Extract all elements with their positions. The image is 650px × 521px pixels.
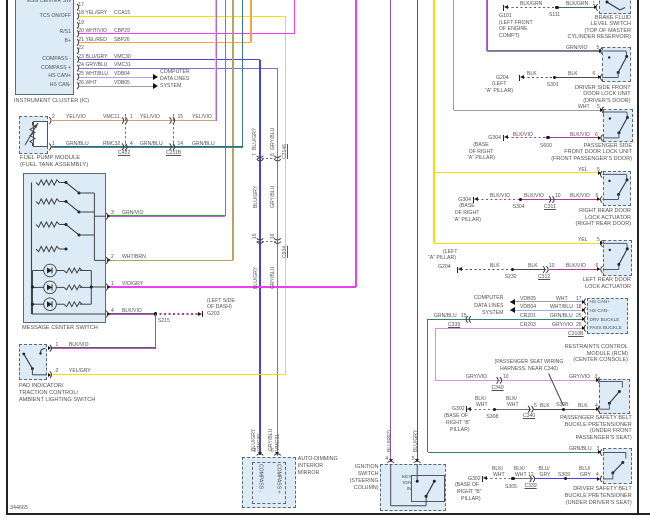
page border right — [637, 0, 639, 514]
message center pin 1 — [107, 285, 111, 289]
ignition switch art — [0, 0, 1, 1]
compass labels — [257, 464, 264, 492]
connector C340 blk — [0, 0, 1, 1]
fuel level sender box — [33, 121, 48, 147]
message center switch block — [23, 173, 106, 323]
IC pin 26 — [0, 0, 1, 1]
wire BLK to driver lock — [555, 77, 600, 78]
wire BLK lr — [513, 269, 546, 270]
page border left — [6, 0, 8, 514]
passenger side front door lock unit block — [603, 109, 633, 142]
instrument cluster block — [15, 0, 74, 95]
pointer line to S39B — [0, 0, 1, 1]
wire GRN/VIO to driver lock — [487, 50, 600, 52]
doc number — [10, 505, 28, 512]
fuel pump module block — [19, 116, 48, 154]
wire YEL/GRY down — [285, 17, 286, 375]
wire GRN/VIO riser right — [486, 0, 488, 51]
block pin arrowheads — [599, 49, 602, 53]
wire BLK pass buckle — [533, 409, 598, 410]
wire BLK/VIO down to pad switch — [155, 314, 157, 349]
ignition pin 4 — [0, 0, 1, 1]
ignition pin 5 — [0, 0, 1, 1]
ground G304 — [474, 197, 478, 201]
ground G204 — [520, 75, 524, 79]
driver pretensioner block — [603, 448, 632, 484]
connector C312 — [0, 0, 1, 1]
variable resistor — [24, 121, 25, 122]
splice S304 — [519, 198, 522, 201]
connector C2146 — [257, 158, 276, 159]
connector C934 — [257, 241, 276, 242]
splice S309 — [564, 477, 567, 480]
wire GRN/VIO riser — [225, 0, 227, 216]
brake fluid level switch block — [599, 0, 631, 14]
arrow computer data lines rcm — [510, 307, 515, 313]
connector C339 drv — [0, 0, 1, 1]
connector C340 — [0, 0, 1, 1]
wire BLU/RED riser to ignition — [390, 0, 391, 462]
wire YEL to left rear lock — [434, 243, 602, 244]
msg pin4 line — [0, 0, 1, 1]
wire BLK/GRN dashed — [507, 7, 557, 8]
wire WHT VDB05 rcm — [510, 301, 584, 302]
wire YEL/RED riser — [250, 0, 251, 42]
wire GRY/VIO down to C340 — [435, 328, 436, 380]
IC pin 21 — [0, 0, 1, 1]
wire WHT/BRN riser — [232, 0, 233, 260]
splice S305 — [511, 477, 514, 480]
wire YEL/GRY CCA15 — [79, 16, 286, 17]
wire GRN/BLU CR201 rcm — [428, 319, 584, 321]
fuel pump pin 1 — [0, 0, 1, 1]
connector C311 — [0, 0, 1, 1]
wire GRN/BLU down to driver buckle — [427, 319, 429, 452]
restraints control module block — [587, 298, 628, 334]
wire GRY/BLU VMC31 — [79, 68, 278, 69]
connector C339 into rcm row — [0, 0, 1, 1]
wire GRN/BLU riser — [242, 0, 244, 147]
wire BLK/WHT dashed G302 drv — [486, 478, 513, 479]
wire BLK/WHT dashed G302 — [470, 409, 494, 410]
ground G203 — [198, 312, 202, 316]
wire YEL to right rear lock — [434, 172, 602, 173]
key-in switch box — [411, 475, 445, 502]
wire WHT/BRN msg — [110, 260, 233, 261]
msg switch resistors and switches — [0, 0, 1, 1]
splice S301 — [553, 76, 556, 79]
wire GRN/BLU RMC32 — [51, 146, 243, 148]
wire WHT VDB05 — [79, 86, 153, 87]
IC pin 19 — [0, 0, 1, 1]
wire VIO/GRY riser — [355, 0, 356, 287]
splice S111 — [555, 6, 558, 9]
mirror pin arrows — [258, 452, 262, 455]
IC pin 25 — [0, 0, 1, 1]
wire BLK/WHT pass — [494, 409, 531, 410]
msg left bus — [0, 0, 1, 1]
passenger pretensioner block — [599, 379, 630, 415]
wire BLK/VIO to G203 — [155, 313, 200, 314]
ground G101 — [504, 5, 508, 9]
IC pin 24 — [0, 0, 1, 1]
IC pin 18 — [0, 0, 1, 1]
wire GRY/BLU VMC31 down — [277, 69, 278, 456]
connector C211B — [173, 114, 174, 152]
wire YEL/VIO VMC11 — [51, 120, 216, 122]
ground G302 — [467, 407, 471, 411]
pad switch pin 2 — [0, 0, 1, 1]
wire BLK/VIO dashed G304 — [507, 137, 548, 138]
pad switch pin 1 — [0, 0, 1, 1]
splice S308 — [493, 408, 496, 411]
ground G302 drv — [483, 476, 487, 480]
arrow to computer data lines — [153, 74, 158, 80]
mirror pin 6 — [0, 0, 1, 1]
wire BLK/VIO to lr lock — [549, 269, 600, 270]
message center pin 2 — [107, 258, 111, 262]
ground G304 — [504, 135, 508, 139]
wire WHT/BLU VDB04 — [79, 77, 153, 78]
fuel pump pin 2 — [0, 0, 1, 1]
arrow computer data lines rcm — [510, 299, 515, 305]
wire WHT/VIO CBP29 — [79, 33, 295, 34]
message center pin 3 — [107, 214, 111, 218]
IC pin 17 — [0, 0, 1, 1]
arrow to computer data lines — [153, 83, 158, 89]
page border bottom — [6, 513, 650, 515]
IC pin 20 — [0, 0, 1, 1]
connector C422 — [125, 114, 126, 152]
splice S39B — [562, 408, 565, 411]
brake fluid switch art — [0, 0, 1, 1]
wire BLU/GRY drv buckle — [535, 478, 600, 479]
ignition pin arrows — [389, 459, 393, 462]
ground G204 lr — [458, 267, 462, 271]
wire BLU/GRY VMC30 down — [259, 60, 260, 456]
wire BLU/GRY VMC30 — [79, 59, 260, 60]
wire YEL/RED SBP26 — [79, 42, 251, 43]
IC pin 22 — [0, 0, 1, 1]
wire WHT/VIO riser — [294, 0, 295, 34]
right rear door lock actuator block — [603, 171, 632, 206]
message center pin 4 — [107, 312, 111, 316]
splice S600 — [546, 136, 549, 139]
wire YEL riser door locks — [433, 0, 434, 243]
wire BLK/VIO msg — [110, 313, 155, 315]
splice S230 — [511, 268, 514, 271]
wire WHT/BLU VDB04 rcm — [510, 310, 584, 311]
left rear door lock actuator block — [603, 240, 632, 276]
wire YEL/GRY pad row — [52, 374, 286, 375]
pad switch art — [0, 0, 1, 1]
wire BLK/GRN — [557, 7, 596, 8]
wire GRY/VIO to C340 and buckle — [435, 380, 598, 381]
wire GRN/BLU to driver buckle — [428, 452, 601, 454]
wire BLK dashed G204 lr — [461, 269, 513, 270]
wire BLK/WHT drv — [513, 478, 533, 479]
wire WHT to passenger lock — [454, 110, 603, 111]
wire BLU/GRY riser to ignition — [417, 0, 418, 462]
wire GRY/VIO CR203 rcm — [435, 328, 584, 329]
wire WHT riser — [453, 0, 454, 110]
IC pin 23 — [0, 0, 1, 1]
wire BLK/VIO to passenger lock — [548, 137, 600, 138]
wire BLK/VIO pad row — [51, 347, 155, 349]
driver side front door lock unit block — [602, 47, 631, 82]
wire YEL/VIO riser — [215, 0, 217, 121]
wire BLK/VIO dashed G304 rr — [477, 199, 521, 200]
ignition switch block — [380, 464, 446, 511]
mirror pin 2 — [0, 0, 1, 1]
pad indicator / traction control / ambient lighting switch block — [19, 344, 47, 380]
wire VIO/GRY msg — [110, 286, 356, 287]
splice S215 — [154, 312, 157, 315]
auto-dimming interior mirror block — [242, 457, 296, 508]
wire BLK dashed G204 — [523, 77, 555, 78]
wire BLK/VIO to rr lock — [521, 199, 600, 200]
wire GRN/VIO msg — [110, 215, 225, 217]
